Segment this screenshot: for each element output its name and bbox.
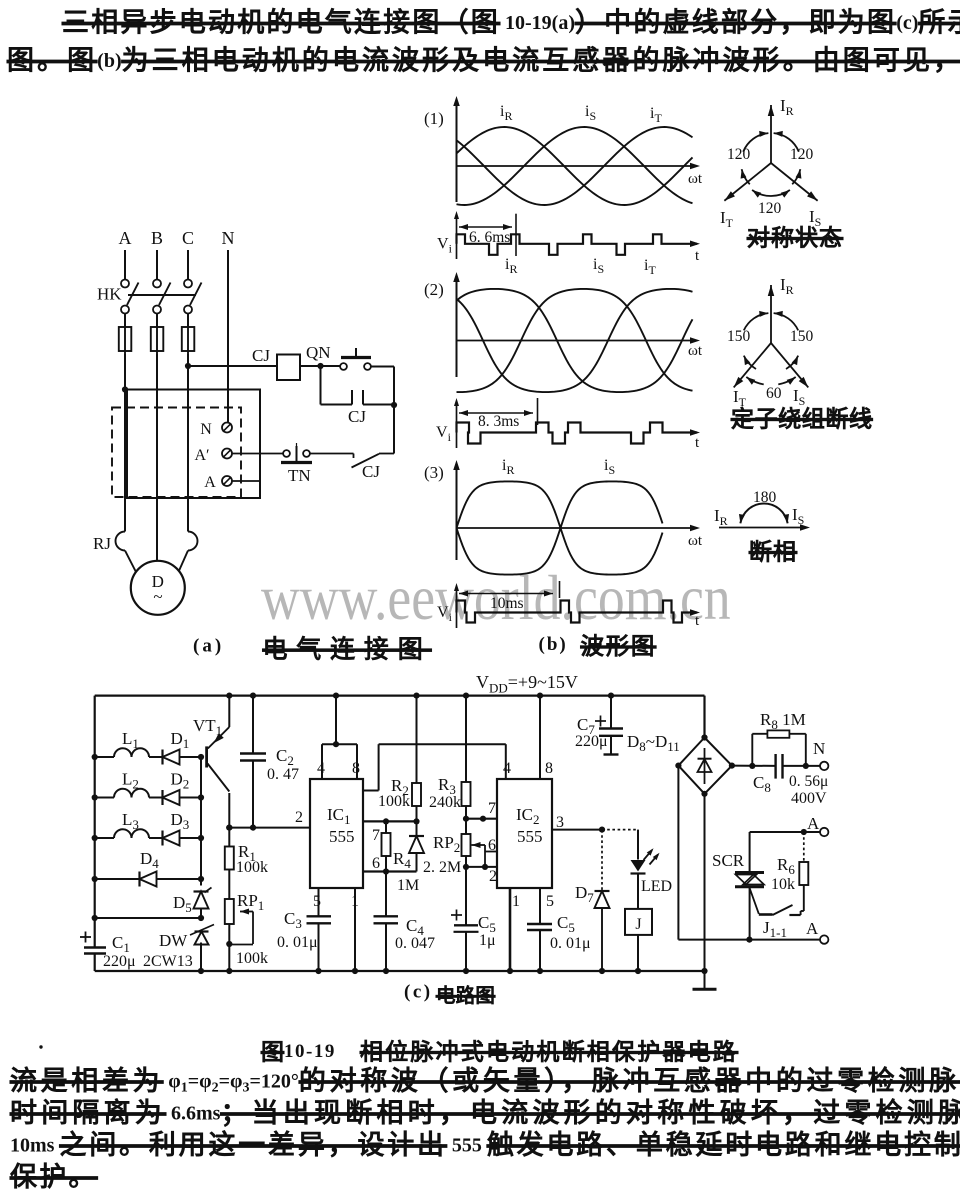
svg-text:10k: 10k	[771, 876, 795, 893]
wire phase C middle	[187, 354, 189, 532]
wire J to bottom rail	[637, 935, 639, 971]
terminal N	[820, 762, 828, 770]
wire diode D2 to base node	[180, 797, 202, 799]
svg-text:(1): (1)	[424, 109, 444, 128]
ground symbol	[693, 988, 717, 991]
C3 wire to bottom rail	[318, 923, 320, 971]
svg-text:图。图​(b)为三相电动机的电流波形及电流互感器的脉冲波形。: 图。图​(b)为三相电动机的电流波形及电流互感器的脉冲波形。由图可见，正常运行时…	[7, 46, 960, 76]
pulse3 measure arrow 10ms	[459, 593, 553, 595]
junction base column 3	[198, 835, 204, 841]
svg-text:1M: 1M	[397, 877, 419, 894]
svg-text:IR: IR	[780, 275, 794, 297]
diode D5	[194, 892, 209, 909]
LED arrows	[644, 850, 653, 860]
svg-text:(c): (c)	[404, 982, 433, 1003]
svg-text:D7: D7	[575, 883, 594, 905]
fuse phase A	[124, 314, 126, 328]
junction phase C to contactor branch	[185, 363, 191, 369]
IC1 pin8 wire	[356, 744, 358, 779]
graph1 curve iT	[457, 127, 693, 205]
wire diode D4 to base column	[157, 878, 202, 880]
svg-text:DW: DW	[159, 931, 188, 950]
svg-text:10ms 之间。利用这一差异，设计出​ 555 触发电路、单: 10ms 之间。利用这一差异，设计出​ 555 触发电路、单稳延时电路和继电控制…	[10, 1130, 960, 1160]
IC1 pins 4-8 jumper	[322, 743, 357, 745]
resistor R8 1M loop	[751, 734, 753, 766]
graph1 vertical axis	[456, 99, 458, 202]
IC2 pin8 wire	[539, 696, 541, 779]
graph2 horizontal axis wt	[457, 340, 698, 342]
wire phase B top	[156, 250, 158, 279]
terminal A upper	[820, 828, 828, 836]
junction left rail L2	[92, 794, 98, 800]
capacitor C2 plates	[240, 752, 266, 754]
svg-text:时间隔离为​ 6.6ms；当出现断相时，电流波形的对称性破坏: 时间隔离为​ 6.6ms；当出现断相时，电流波形的对称性破坏，过零检测脉冲的间隔…	[10, 1098, 960, 1128]
wire Aprime to TN	[232, 453, 283, 455]
svg-text:ωt: ωt	[688, 343, 703, 359]
wire terminal A to box edge	[232, 480, 260, 482]
svg-text:iR: iR	[505, 256, 517, 276]
junction C2 bottom	[250, 825, 256, 831]
svg-text:180: 180	[753, 489, 777, 506]
resistor R4	[385, 821, 387, 833]
SCR vertical wire	[749, 832, 751, 873]
svg-text:8: 8	[352, 760, 360, 777]
svg-text:IR: IR	[714, 506, 728, 528]
fuse phase B	[156, 314, 158, 328]
svg-text:2CW13: 2CW13	[143, 953, 193, 970]
svg-text:CJ: CJ	[348, 407, 366, 426]
svg-text:6. 6ms: 6. 6ms	[469, 229, 510, 246]
top rail corner down to bridge	[703, 696, 705, 738]
phasor1 vector IS	[771, 163, 818, 201]
graph1 horizontal axis wt	[457, 165, 698, 167]
svg-text:7: 7	[372, 827, 380, 844]
IC2 pin3 output wire	[552, 829, 602, 831]
junction row 918	[198, 915, 204, 921]
wire D5 to DW	[200, 909, 202, 917]
phasor2 arc bottom right arrow	[778, 377, 795, 384]
phasor1 arc left	[742, 169, 750, 184]
svg-text:IS: IS	[792, 505, 804, 527]
junction phase A at protector box	[122, 386, 128, 392]
graph3 horizontal axis wt	[457, 527, 698, 529]
svg-text:L2: L2	[122, 770, 139, 792]
junction base column 2	[198, 794, 204, 800]
svg-text:QN: QN	[306, 343, 331, 362]
IC1 output route to IC2 pin4	[363, 790, 379, 792]
svg-text:120: 120	[758, 200, 782, 217]
svg-text:CJ: CJ	[362, 462, 380, 481]
svg-text:D8~D11: D8~D11	[627, 732, 680, 754]
RP2 wiper to IC2 pin6	[472, 842, 481, 848]
wire C-phase to CJ coil	[188, 365, 277, 367]
svg-text:SCR: SCR	[712, 851, 745, 870]
svg-text:8. 3ms: 8. 3ms	[478, 413, 519, 430]
IC1 pin7 line	[363, 820, 417, 822]
svg-text:D3: D3	[171, 810, 190, 832]
svg-text:4: 4	[317, 760, 325, 777]
phasor2 arc top	[744, 313, 769, 330]
potentiometer RP2 2.2M	[465, 819, 467, 834]
svg-text:HK: HK	[97, 285, 122, 304]
svg-text:LED: LED	[641, 878, 672, 895]
svg-text:5: 5	[313, 893, 321, 910]
capacitor C2 wire top	[252, 696, 254, 754]
SCR gate to contact J1-1	[749, 888, 758, 914]
wire diode D1 to base node	[180, 756, 202, 758]
left rail	[94, 696, 96, 948]
phasor3 arc 180	[740, 504, 787, 524]
phasor2 vector IS	[771, 343, 808, 387]
svg-text:(b): (b)	[539, 634, 568, 655]
svg-text:RP1: RP1	[237, 891, 264, 913]
svg-text:RJ: RJ	[93, 534, 111, 553]
svg-text:图​: 图​	[261, 1039, 284, 1065]
diode D1	[163, 750, 180, 765]
resistor R2 100k	[416, 696, 418, 783]
phasor1 vector IT	[724, 163, 771, 201]
capacitor C5 1u electrolytic	[465, 867, 467, 925]
svg-text:定子绕组断线​: 定子绕组断线​	[731, 406, 873, 432]
graph3 vertical axis	[456, 463, 458, 560]
relay coil J box	[625, 909, 652, 935]
svg-text:D5: D5	[173, 893, 192, 915]
phasor2 vector IT	[734, 343, 771, 387]
capacitor C4 wire	[385, 872, 387, 917]
svg-text:N: N	[222, 228, 235, 248]
svg-text:100k: 100k	[378, 793, 410, 810]
ground rail (bottom)	[95, 970, 705, 972]
phasor3 baseline IR-IS	[719, 527, 806, 529]
svg-text:C8: C8	[753, 773, 771, 795]
inductor L2	[114, 789, 149, 798]
svg-text:6: 6	[488, 837, 496, 854]
zener diode DW	[195, 932, 209, 945]
svg-text:C: C	[182, 228, 194, 248]
svg-text:iT: iT	[644, 257, 656, 277]
wire node to IC1 pin2	[229, 827, 310, 829]
svg-text:IT: IT	[720, 208, 734, 230]
junction base column 1	[198, 754, 204, 760]
bridge inner diode	[704, 748, 706, 784]
wire diode D3 to base node	[180, 837, 202, 839]
wire CJ coil to QN	[300, 365, 341, 367]
capacitor C8 plates	[774, 754, 776, 779]
capacitor C3 plates	[307, 915, 332, 917]
svg-text:0. 01μ: 0. 01μ	[277, 934, 318, 951]
svg-text:8: 8	[545, 760, 553, 777]
wire left rail to diode D4	[95, 878, 140, 880]
motor D circle	[131, 561, 185, 615]
svg-text:iR: iR	[500, 103, 512, 123]
potentiometer RP1	[225, 899, 234, 924]
junction base column D4 row	[198, 876, 204, 882]
bridge left to lower A line	[677, 766, 679, 940]
pulse3 vertical axis	[456, 587, 458, 628]
svg-text:120: 120	[727, 146, 751, 163]
svg-text:VDD=+9~15V: VDD=+9~15V	[476, 672, 578, 696]
svg-text:VT1: VT1	[193, 716, 222, 738]
phasor2 arc left	[744, 356, 756, 369]
LED indicator	[637, 830, 639, 860]
wire to inductor L2	[95, 797, 114, 799]
graph3 lens lobe iR (upper+lower)	[457, 481, 561, 528]
junction VT1 emitter at top rail	[226, 693, 232, 699]
wire to inductor L3	[95, 837, 114, 839]
svg-text:10ms: 10ms	[490, 595, 524, 612]
C7 plus sign	[595, 720, 606, 722]
svg-text:对称状态​: 对称状态​	[747, 225, 843, 251]
svg-text:C1: C1	[112, 933, 130, 955]
pulse2 vertical axis	[456, 402, 458, 448]
pushbutton TN (stop, NC)	[283, 450, 290, 457]
wire TN to CJ contact	[310, 453, 354, 455]
svg-text:100k: 100k	[236, 859, 268, 876]
junction bottom rail DW	[198, 968, 204, 974]
svg-text:t: t	[695, 435, 700, 451]
junction at QN left	[317, 363, 323, 369]
svg-text:断相​: 断相​	[749, 539, 797, 565]
junction right vertical	[391, 402, 397, 408]
wire RJ C to motor	[178, 551, 188, 574]
protector solid box	[127, 390, 260, 499]
phasor2 arc right	[786, 356, 798, 369]
diode D2	[163, 790, 180, 805]
bridge bottom to ground	[704, 794, 706, 989]
relay contact J1-1	[759, 913, 773, 916]
svg-text:5: 5	[546, 893, 554, 910]
contact CJ self-holding (NO) parallel branch	[320, 366, 322, 405]
svg-text:L1: L1	[122, 729, 139, 751]
diode D7	[601, 830, 603, 891]
wire neutral N vertical	[227, 250, 229, 422]
phasor2 vector IR	[770, 285, 772, 343]
svg-text:IR: IR	[780, 96, 794, 118]
resistor R3 240k	[465, 696, 467, 782]
svg-text:流是相差为​ φ1=φ2=φ3=120°的对称波（或矢量），: 流是相差为​ φ1=φ2=φ3=120°的对称波（或矢量），脉冲互感器中的过零检…	[10, 1066, 960, 1096]
power rail VDD (top)	[95, 694, 705, 696]
IC1 pin1 wire to bottom rail	[354, 888, 356, 971]
diode D3	[163, 831, 180, 846]
N line right of C8	[783, 765, 821, 767]
wire phase A top	[124, 250, 126, 279]
junction collector node	[226, 825, 232, 831]
switch HK pole B	[153, 280, 161, 288]
svg-text:TN: TN	[288, 466, 311, 485]
svg-text:2: 2	[489, 868, 497, 885]
inductor L3	[114, 829, 149, 838]
svg-text:相位脉冲式电动机断相保护器电路​: 相位脉冲式电动机断相保护器电路​	[360, 1039, 738, 1065]
pulse1 vertical axis	[456, 215, 458, 259]
svg-text:2: 2	[295, 809, 303, 826]
svg-text:iS: iS	[585, 103, 596, 123]
thermal relay RJ element C	[188, 532, 198, 551]
graph1 curve iR	[457, 127, 693, 205]
svg-text:J1-1: J1-1	[763, 918, 787, 940]
node RP2 bottom to IC2 pin2	[463, 864, 469, 870]
node R3-RP2 to IC2 pin7	[463, 816, 469, 822]
junction left rail D4 row	[92, 876, 98, 882]
protector dashed box	[112, 408, 241, 498]
pulse2 measure arrow 8.3ms	[459, 412, 533, 414]
upper A line	[750, 831, 820, 833]
svg-text:A: A	[204, 474, 216, 491]
base column vertical wire	[200, 757, 202, 886]
SCR symbol	[735, 871, 764, 874]
svg-text:iR: iR	[502, 457, 514, 477]
svg-text:220μ: 220μ	[575, 733, 608, 750]
capacitor C1 plus sign	[80, 936, 91, 938]
pulse3 waveform Vi	[457, 601, 698, 623]
svg-text:120: 120	[790, 146, 814, 163]
graph2 curve iR clipped	[457, 289, 693, 392]
N line from bridge right	[732, 765, 775, 767]
svg-text:0. 01μ: 0. 01μ	[550, 935, 591, 952]
wire RJ B to motor	[156, 533, 158, 561]
svg-text:波形图​: 波形图​	[581, 633, 657, 659]
svg-text:6: 6	[372, 855, 380, 872]
svg-text:三相异步电动机的电气连接图（图​ 10-19(a)）中的虚线: 三相异步电动机的电气连接图（图​ 10-19(a)）中的虚线部分，即为图​(c)…	[62, 8, 960, 38]
diode D6 between pin7 and pin6 lines	[416, 821, 418, 836]
wire inductor to diode D3	[149, 837, 163, 839]
svg-text:150: 150	[790, 328, 814, 345]
svg-text:iS: iS	[593, 256, 604, 276]
resistor R1	[226, 825, 232, 831]
svg-text:3: 3	[556, 814, 564, 831]
resistor R6 10k	[803, 832, 805, 862]
phasor1 arc top	[743, 133, 768, 152]
thermal relay RJ element A	[116, 532, 126, 551]
capacitor C1 plates	[84, 946, 106, 949]
svg-text:10-19: 10-19	[284, 1041, 336, 1062]
svg-text:C3: C3	[284, 909, 302, 931]
svg-text:(3): (3)	[424, 463, 444, 482]
svg-text:iS: iS	[604, 457, 615, 477]
junction left rail L1	[92, 754, 98, 760]
svg-text:N: N	[200, 421, 212, 438]
svg-text:150: 150	[727, 328, 751, 345]
wire inductor to diode D2	[149, 797, 163, 799]
svg-text:555: 555	[517, 827, 543, 846]
svg-text:J: J	[635, 916, 641, 933]
svg-text:2. 2M: 2. 2M	[423, 859, 461, 876]
svg-text:240k: 240k	[429, 794, 461, 811]
watermark www.eeworld.com.cn	[261, 562, 731, 633]
wire RJ A to motor	[125, 551, 137, 574]
bridge rectifier D8-D11 diamond	[678, 738, 732, 794]
junction left rail L3	[92, 835, 98, 841]
svg-text:D1: D1	[171, 729, 190, 751]
capacitor C4 plates	[374, 915, 399, 917]
wire left rail row 918	[95, 917, 201, 919]
transistor VT1 emitter (top, PNP arrow)	[228, 696, 230, 727]
switch HK pole C	[184, 280, 192, 288]
potentiometer RP1 wiper	[240, 909, 249, 915]
svg-text:ωt: ωt	[688, 171, 703, 187]
svg-text:D4: D4	[140, 849, 159, 871]
diode D4	[140, 872, 157, 887]
svg-text:0. 56μ: 0. 56μ	[789, 773, 828, 790]
svg-text:RP2: RP2	[433, 833, 460, 855]
IC1 pin6 line	[363, 870, 417, 872]
svg-text:A′: A′	[194, 447, 209, 464]
svg-text:N: N	[813, 739, 825, 758]
capacitor C7 220u electrolytic	[608, 693, 614, 699]
svg-text:C5: C5	[557, 913, 575, 935]
svg-text:A: A	[119, 228, 132, 248]
svg-text:L3: L3	[122, 810, 139, 832]
graph2 vertical axis	[456, 275, 458, 377]
pulse2 waveform Vi	[457, 423, 698, 444]
phasor1 arc right	[792, 169, 800, 184]
IC2 pin1 wire to bottom rail	[509, 888, 512, 971]
wire phase B middle	[156, 354, 158, 533]
IC2 pin5 wire and C6 0.01u	[539, 888, 541, 924]
wire phase A middle	[124, 354, 126, 532]
phasor1 vector IR	[770, 105, 772, 163]
transistor VT1 collector	[208, 764, 230, 792]
svg-text:ωt: ωt	[688, 533, 703, 549]
switch HK pole A	[121, 280, 129, 288]
wire to inductor L1	[95, 756, 114, 758]
graph2 curve iS clipped	[457, 289, 693, 392]
graph1 curve iS	[457, 127, 693, 205]
svg-text:R6: R6	[777, 855, 795, 877]
svg-text:~: ~	[153, 587, 162, 606]
phasor1 arc bottom	[752, 190, 790, 196]
svg-text:7: 7	[488, 800, 496, 817]
svg-text:(a): (a)	[193, 636, 224, 657]
wire phase C top	[187, 250, 189, 279]
svg-text:(2): (2)	[424, 280, 444, 299]
svg-text:A: A	[806, 919, 819, 938]
capacitor C2 wire bottom	[252, 761, 254, 828]
terminal A lower	[820, 935, 828, 943]
wire DW to bottom rail	[200, 943, 202, 972]
svg-text:4: 4	[503, 760, 511, 777]
IC2 555 box	[497, 779, 552, 888]
svg-text:Vi: Vi	[436, 424, 452, 444]
svg-text:A: A	[807, 814, 820, 833]
svg-text:1μ: 1μ	[479, 932, 496, 949]
IC1 pin4 wire	[321, 744, 323, 779]
wire inductor to diode D1	[149, 756, 163, 758]
svg-text:220μ: 220μ	[103, 953, 136, 970]
contactor coil CJ	[277, 355, 300, 381]
junction C2 top rail	[250, 693, 256, 699]
fuse phase C	[187, 314, 189, 328]
phasor2 arc bottom left arrow	[746, 377, 763, 384]
contact CJ (NO) in A-prime line	[379, 453, 394, 455]
svg-text:电路图​: 电路图​	[436, 985, 495, 1007]
junction RP1 bottom rail	[226, 968, 232, 974]
transistor VT1 base bar	[205, 746, 208, 767]
wire QN right to corner	[371, 366, 394, 368]
IC1 pin5 wire to C3	[318, 888, 320, 916]
svg-text:0. 047: 0. 047	[395, 935, 435, 952]
svg-text:1: 1	[512, 893, 520, 910]
pulse1 waveform Vi	[457, 234, 698, 255]
switch HK link bar	[128, 294, 196, 296]
svg-text:CJ: CJ	[252, 346, 270, 365]
inductor L1	[114, 748, 149, 757]
C5 plus sign	[451, 914, 462, 916]
pulse1 measure arrow 6.6ms	[459, 226, 512, 228]
svg-text:Vi: Vi	[437, 235, 453, 255]
svg-text:100k: 100k	[236, 950, 268, 967]
svg-text:D2: D2	[171, 770, 190, 792]
pushbutton QN (start, NO)	[340, 363, 347, 370]
